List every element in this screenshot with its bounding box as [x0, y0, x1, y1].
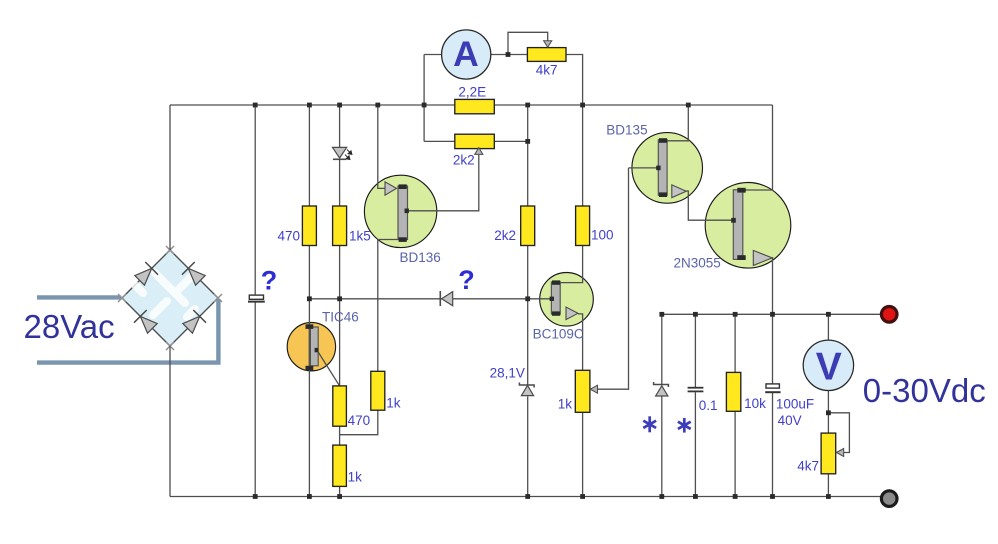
- ammeter A: [442, 30, 491, 79]
- svg-text:0-30Vdc: 0-30Vdc: [863, 372, 986, 409]
- svg-text:1k: 1k: [558, 397, 573, 412]
- junction nodes output line: [659, 312, 830, 317]
- wire 0.1 cap branch upper: [694, 314, 696, 387]
- wire LED branch top: [339, 105, 341, 148]
- wire filter cap branch lower: [254, 302, 256, 497]
- wire bottom rail: [170, 496, 882, 498]
- transistor BD135 internals: [656, 138, 686, 197]
- wire bridge top to rail: [169, 105, 171, 250]
- diode mid node: [442, 292, 453, 306]
- resistor 2k2 vertical: [521, 206, 535, 246]
- potentiometer 4k7 bottom: [821, 433, 836, 474]
- svg-text:?: ?: [261, 266, 278, 296]
- svg-text:2N3055: 2N3055: [674, 256, 721, 271]
- wire 10k branch lower: [734, 411, 736, 496]
- bridge corner mark top: [166, 246, 174, 254]
- capacitor 100uF top plate: [766, 384, 779, 388]
- wire ammeter right to 4k7: [491, 54, 528, 56]
- svg-text:28,1V: 28,1V: [490, 366, 525, 381]
- bridge diode top-left: [133, 262, 158, 287]
- svg-text:470: 470: [277, 229, 300, 244]
- bridge diode bottom-left: [134, 310, 159, 335]
- svg-text:28Vac: 28Vac: [24, 308, 115, 345]
- bridge fill white patches: [135, 273, 195, 317]
- LED triangle: [333, 147, 347, 158]
- wire 470 branch x309: [308, 105, 310, 206]
- svg-text:1k: 1k: [348, 470, 363, 485]
- junction nodes top rail: [253, 103, 691, 108]
- wire ammeter left horizontal: [424, 54, 442, 56]
- transistor 2N3055 internals: [731, 188, 772, 266]
- wire zener star branch upper: [661, 314, 663, 384]
- svg-text:100: 100: [591, 228, 614, 243]
- zener 28,1V cathode bar: [519, 383, 534, 388]
- junction node ammeter right: [506, 52, 511, 57]
- wire x527 2k2 to zener: [527, 246, 529, 385]
- wire 2N3055 emitter to output line: [771, 258, 774, 315]
- 28Vac input thick wire lower loop to bridge right corner: [37, 299, 218, 363]
- capacitor 100uF bottom plate: [765, 391, 780, 393]
- svg-text:BD135: BD135: [606, 123, 647, 138]
- bridge diode bottom-right: [181, 310, 206, 335]
- bridge corner mark right: [214, 294, 222, 302]
- svg-text:V: V: [816, 346, 842, 389]
- wire 0.1 cap branch lower: [694, 392, 696, 496]
- wire x582 rail to 100: [582, 105, 584, 206]
- zener star cathode bar: [654, 382, 669, 387]
- bridge rectifier diamond: [122, 250, 218, 346]
- resistor 2,2E horizontal: [455, 99, 495, 113]
- LED cathode bar: [333, 158, 346, 160]
- thyristor TIC46 internals: [306, 323, 319, 372]
- svg-text:A: A: [453, 34, 479, 74]
- wire 4k7 right to rail: [566, 55, 583, 106]
- transistor BD136 internals: [385, 182, 409, 242]
- transistor BD136 circle: [364, 175, 436, 247]
- wire voltmeter top: [827, 314, 829, 340]
- wire 4k7 bottom to rail: [827, 474, 829, 497]
- wire LED to 1k5: [339, 160, 341, 207]
- capacitor 0.1 plates: [688, 387, 704, 389]
- wire 1k5 bottom to 470 second: [339, 246, 341, 386]
- wire BD136 emitter from rail: [378, 105, 386, 188]
- star mark right: [678, 418, 691, 433]
- wire 100uF branch lower: [772, 393, 774, 497]
- junction nodes bottom rail: [253, 494, 831, 499]
- wire 100uF branch upper: [772, 314, 774, 384]
- wire 1k to elbow joining 470: [340, 410, 378, 435]
- svg-text:4k7: 4k7: [536, 63, 558, 78]
- potentiometer 1k at BC109C emitter: [575, 370, 590, 412]
- svg-text:2k2: 2k2: [494, 228, 516, 243]
- wire BD135 base down to 1k pot arrow: [598, 168, 629, 389]
- potentiometer 4k7 top wiper arrow: [544, 41, 552, 47]
- svg-text:?: ?: [458, 265, 475, 295]
- capacitor near bridge bottom plate: [248, 301, 265, 303]
- wire filter cap branch upper: [254, 105, 256, 295]
- svg-text:BD136: BD136: [400, 250, 441, 265]
- transistor BC109C internals: [550, 280, 578, 319]
- wire 2k2 pot left: [424, 140, 455, 142]
- svg-text:2,2E: 2,2E: [458, 85, 486, 100]
- wire 100 to BC109C collector: [560, 246, 582, 283]
- wire 1k pot to bottom rail: [582, 412, 584, 496]
- wire TIC46 gate diagonal: [317, 351, 339, 386]
- output terminal negative gray: [881, 491, 897, 507]
- resistor 470 second: [333, 386, 347, 426]
- wire 1k second to bottom rail: [339, 486, 341, 496]
- junction node 2k2 right: [525, 139, 530, 144]
- svg-text:10k: 10k: [744, 396, 766, 411]
- svg-text:TIC46: TIC46: [322, 310, 359, 325]
- potentiometer 4k7 bottom wiper arrow: [836, 449, 843, 457]
- potentiometer 1k wiper arrow: [590, 385, 597, 393]
- star mark left: [643, 416, 656, 432]
- potentiometer 4k7 top: [527, 48, 566, 62]
- wire mid horizontal node: [309, 298, 551, 300]
- svg-text:4k7: 4k7: [797, 459, 819, 474]
- svg-text:1k5: 1k5: [349, 229, 371, 244]
- transistor 2N3055 circle: [705, 183, 791, 269]
- bridge corner mark bottom: [166, 342, 174, 350]
- resistor 470 first: [302, 206, 316, 246]
- zener star triangle: [656, 386, 668, 396]
- transistor BD135 circle: [632, 133, 703, 204]
- wire between 470 and 1k lower chain: [339, 426, 341, 445]
- wire BD136 base to 2k2 pot wiper: [408, 155, 479, 211]
- wire output line: [662, 313, 882, 315]
- potentiometer 2k2 horizontal: [455, 134, 495, 148]
- wire 10k branch upper: [734, 314, 736, 372]
- zener 28,1V triangle: [521, 385, 533, 395]
- wire voltmeter bottom to 4k7: [827, 390, 829, 433]
- wire 4k7 wiper loop: [508, 32, 548, 54]
- potentiometer 2k2 wiper arrow: [475, 148, 483, 155]
- wire BC109C emitter down to 1k pot: [578, 314, 583, 370]
- svg-text:100uF: 100uF: [776, 397, 814, 412]
- wire x309 down through TIC46 to bottom rail: [308, 246, 310, 497]
- svg-text:470: 470: [348, 413, 371, 428]
- voltmeter V: [803, 340, 853, 390]
- svg-text:0.1: 0.1: [699, 398, 718, 413]
- wire bridge bottom to bottom rail: [169, 346, 171, 497]
- wire BD135 collector to rail: [667, 105, 689, 141]
- svg-text:1k: 1k: [386, 396, 401, 411]
- wire x527 rail to 2k2: [527, 105, 529, 206]
- capacitor near bridge top plate: [249, 295, 263, 299]
- resistor 1k second: [333, 445, 347, 486]
- wire 2N3055 collector from rail: [743, 105, 773, 190]
- junction node voltmeter bottom: [826, 410, 831, 415]
- wire 2k2 pot right to x527: [494, 140, 527, 142]
- 28Vac input thick wire upper: [37, 295, 121, 299]
- resistor 1k5: [333, 206, 347, 246]
- thyristor TIC46 circle: [287, 323, 335, 371]
- wire 4k7 wiper loop bottom: [828, 413, 849, 453]
- bridge diode top-right: [182, 262, 207, 287]
- resistor 100: [576, 206, 590, 246]
- wire ammeter left drop: [423, 55, 425, 142]
- resistor 10k: [726, 372, 740, 411]
- diode mid node cathode bar: [439, 291, 441, 306]
- wire x527 zener to bottom rail: [527, 396, 529, 496]
- junction nodes mid wire: [307, 296, 530, 301]
- wire BD136 collector down: [378, 240, 399, 372]
- svg-text:2k2: 2k2: [453, 153, 475, 168]
- wire zener star branch lower: [661, 396, 663, 496]
- transistor BC109C circle: [540, 273, 594, 327]
- bridge corner mark left: [118, 294, 126, 302]
- LED emission arrows: [345, 150, 352, 160]
- output terminal positive red: [881, 307, 897, 323]
- resistor 1k at BD136 collector: [371, 371, 385, 410]
- svg-text:BC109C: BC109C: [533, 327, 584, 342]
- wire BD135 emitter to 2N3055 base: [686, 191, 733, 220]
- svg-text:40V: 40V: [778, 413, 802, 428]
- wire top rail: [170, 104, 773, 106]
- wire BD135 base horizontal: [629, 167, 659, 169]
